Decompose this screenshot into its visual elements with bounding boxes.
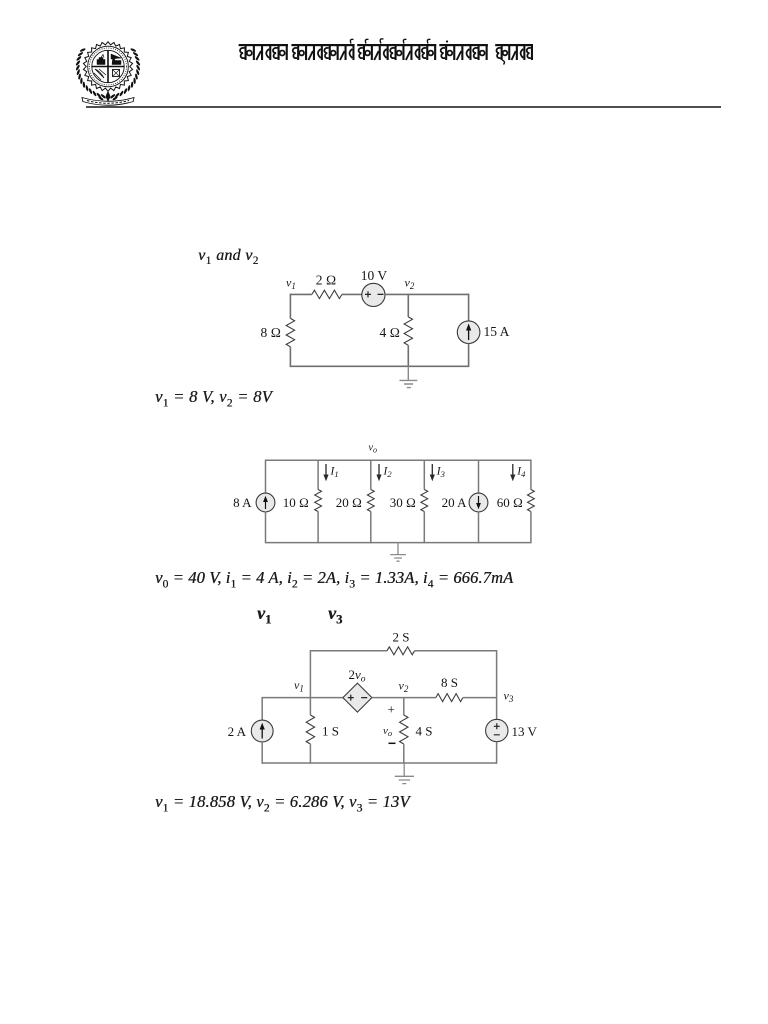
wire: left vertical lower (8-ohm to bottom) (289, 347, 291, 367)
svg-text:v3: v3 (504, 689, 514, 705)
svg-text:8 Ω: 8 Ω (261, 325, 282, 340)
resistor R 20ohm zigzag (367, 490, 374, 512)
svg-text:I1: I1 (330, 466, 339, 480)
wire: middle horizontal diamond to v2 to 8S (372, 697, 436, 699)
wire: right vertical lower (468, 344, 470, 368)
wire: 2A branch upper lead (261, 697, 263, 721)
polarity marks + - inside diamond (348, 695, 367, 701)
wire: middle horizontal 8S to right edge (463, 697, 497, 699)
wire: bottom horizontal (290, 365, 468, 367)
wire: left vertical upper (v1 down to 8-ohm) (289, 294, 291, 319)
polarity marks + - inside 10V source (365, 291, 384, 297)
institute logo emblem (70, 38, 146, 108)
svg-text:4 Ω: 4 Ω (380, 325, 401, 340)
ground symbol (395, 776, 414, 783)
polarity marks + over - inside 13V source (494, 723, 500, 735)
svg-text:20 Ω: 20 Ω (336, 495, 362, 510)
wire: branch 4 upper lead (423, 460, 425, 490)
current source IS 8A circle (256, 493, 275, 512)
resistor R 1S zigzag (306, 715, 314, 744)
wire: top horizontal left of 2S (310, 650, 387, 652)
wire: branch 5 upper (20A top lead) (478, 460, 480, 494)
svg-text:2 Ω: 2 Ω (316, 273, 337, 288)
svg-text:8 S: 8 S (441, 675, 458, 690)
svg-text:+: + (388, 702, 395, 717)
svg-text:20 A: 20 A (442, 495, 468, 510)
wire: branch 6 upper lead (530, 460, 532, 490)
wire: v1 vertical from top wire to middle wire (309, 650, 311, 698)
resistor R 60ohm zigzag (528, 490, 535, 512)
wire: branch 1 lower (8A bottom lead) (265, 512, 267, 544)
wire: branch 3 lower lead (370, 512, 372, 544)
arrow inside 15A source (up) (468, 328, 470, 341)
svg-text:8 A: 8 A (233, 495, 252, 510)
wire: branch 1 upper (8A top lead) (265, 460, 267, 494)
svg-text:v1: v1 (294, 678, 304, 694)
wire: right vertical upper (468, 294, 470, 321)
resistor R 30ohm zigzag (421, 490, 428, 512)
ground stub (403, 763, 405, 776)
arrow inside 20A source (down) (478, 496, 480, 506)
wire: 1S branch upper lead (309, 698, 311, 715)
answer line 2 (155, 568, 513, 588)
svg-text:10 V: 10 V (361, 268, 388, 283)
current arrow I1 (325, 464, 327, 478)
polarity - below vo of 4S (389, 742, 396, 744)
wire: bottom horizontal (262, 762, 496, 764)
current arrow I4 (512, 464, 514, 478)
svg-text:I3: I3 (436, 466, 445, 480)
svg-text:1 S: 1 S (322, 724, 339, 739)
wire: right vertical from top wire down to v3 node (496, 650, 498, 698)
svg-text:vo: vo (369, 443, 377, 455)
svg-text:4 S: 4 S (416, 724, 433, 739)
header rule (86, 106, 721, 108)
wire: branch 2 upper lead (317, 460, 319, 490)
arrow inside 2A source (up) (261, 727, 263, 739)
wire: 13V branch lower lead (496, 742, 498, 764)
svg-text:2 A: 2 A (228, 724, 247, 739)
current source IS 2A circle (251, 720, 273, 742)
wire: 1S branch lower lead (309, 744, 311, 764)
resistor R 2ohm zigzag (312, 290, 342, 298)
resistor R 4S zigzag (400, 715, 408, 744)
svg-text:60 Ω: 60 Ω (497, 495, 523, 510)
svg-text:2 S: 2 S (393, 630, 410, 645)
heading: v1 and v2 (198, 247, 259, 265)
svg-text:15 A: 15 A (484, 324, 510, 339)
resistor R 4ohm zigzag (404, 317, 412, 345)
svg-text:I4: I4 (516, 466, 526, 480)
resistor R 8S zigzag (436, 694, 463, 702)
wire: branch 5 lower (20A bottom lead) (478, 512, 480, 544)
ground stub (407, 366, 409, 380)
svg-text:2vo: 2vo (349, 667, 366, 685)
wire: 2A branch lower lead (261, 742, 263, 764)
wire: top-left segment v1 to 2-ohm (290, 293, 312, 295)
svg-text:I2: I2 (383, 466, 393, 480)
wire: voltage source to node v2 and on to right corner (385, 293, 469, 295)
wire: 13V branch upper lead (496, 698, 498, 720)
svg-text:v2: v2 (399, 678, 409, 694)
wire: branch 6 lower lead (530, 512, 532, 544)
ground symbol (400, 380, 418, 387)
current source IS 20A circle (469, 493, 488, 512)
voltage source VS 10V circle (362, 283, 385, 306)
wire: 4S branch lower lead (403, 744, 405, 764)
wire: middle vertical upper (v2 down to 4-ohm) (407, 294, 409, 317)
resistor R 8ohm zigzag (286, 318, 294, 346)
ground stub (397, 543, 399, 555)
ground symbol (390, 555, 406, 562)
wire: branch 3 upper lead (370, 460, 372, 490)
answer line 3 (155, 792, 410, 812)
resistor R 10ohm zigzag (315, 490, 322, 512)
answer line 1 (155, 387, 272, 407)
resistor R 2S zigzag (387, 647, 415, 655)
svg-text:v1: v1 (286, 275, 296, 291)
svg-text:v2: v2 (405, 276, 415, 292)
voltage source VS 13V circle (486, 719, 508, 741)
svg-text:10 Ω: 10 Ω (283, 495, 309, 510)
node label v1 (bold, above circuit 3) (257, 603, 271, 624)
svg-text:30 Ω: 30 Ω (390, 495, 416, 510)
current arrow I3 (431, 464, 433, 478)
wire: top horizontal right of 2S (415, 650, 497, 652)
wire: 4S branch upper lead (403, 698, 405, 715)
arrow inside 8A source (up) (265, 499, 267, 509)
title: Sardar Vallabhbhai Rashtriya Praudhogiki Sansthan Surat (drawn Devanagari) (0, 0, 768, 70)
current source IS 15A circle (457, 321, 480, 344)
current arrow I2 (378, 464, 380, 478)
wire: branch 4 lower lead (423, 512, 425, 544)
wire: bottom horizontal (266, 542, 532, 544)
svg-text:13 V: 13 V (512, 724, 538, 739)
wire: top horizontal (266, 459, 532, 461)
wire: branch 2 lower lead (317, 512, 319, 544)
dependent source 2vo diamond (343, 683, 372, 712)
svg-text:vo: vo (383, 725, 392, 738)
wire: middle vertical lower (4-ohm to bottom) (407, 345, 409, 366)
wire: 2-ohm to voltage source (342, 293, 362, 295)
wire: middle horizontal from 2A branch to diamond (262, 697, 343, 699)
node label v3 (bold, above circuit 3) (328, 603, 342, 624)
